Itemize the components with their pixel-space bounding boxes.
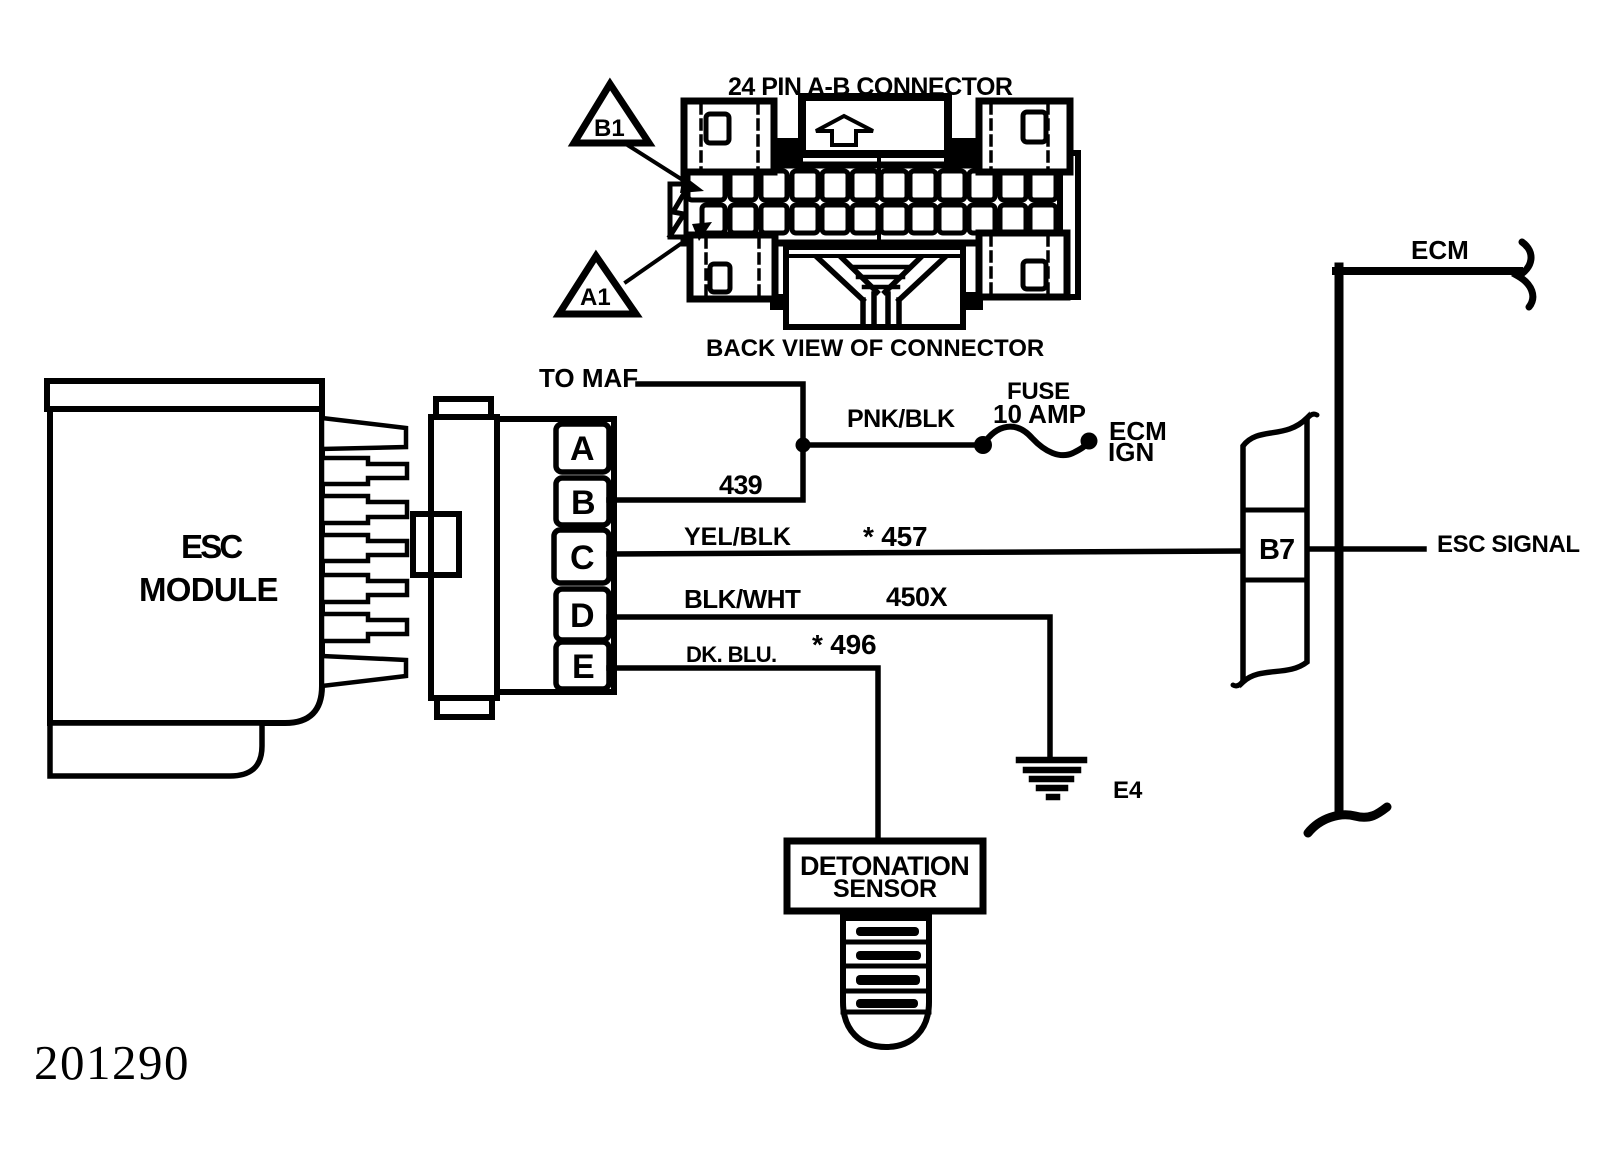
svg-text:10 AMP: 10 AMP: [993, 399, 1086, 429]
svg-text:DK. BLU.: DK. BLU.: [686, 642, 777, 667]
svg-text:YEL/BLK: YEL/BLK: [684, 523, 791, 551]
svg-text:ECM: ECM: [1411, 235, 1469, 265]
svg-text:B1: B1: [594, 115, 625, 142]
svg-text:B: B: [571, 484, 596, 522]
svg-text:ESC: ESC: [181, 528, 242, 565]
svg-text:A1: A1: [580, 284, 611, 311]
svg-text:SENSOR: SENSOR: [833, 875, 937, 903]
svg-text:450X: 450X: [886, 582, 948, 612]
svg-text:* 457: * 457: [863, 521, 927, 552]
svg-text:201290: 201290: [34, 1035, 190, 1090]
svg-text:MODULE: MODULE: [139, 571, 278, 608]
svg-text:A: A: [570, 430, 595, 468]
svg-text:24 PIN A-B CONNECTOR: 24 PIN A-B CONNECTOR: [728, 73, 1013, 101]
svg-text:BACK VIEW OF CONNECTOR: BACK VIEW OF CONNECTOR: [706, 335, 1044, 362]
svg-text:TO MAF: TO MAF: [539, 363, 638, 393]
svg-text:B7: B7: [1259, 534, 1294, 566]
svg-text:BLK/WHT: BLK/WHT: [684, 584, 801, 614]
svg-text:ESC SIGNAL: ESC SIGNAL: [1437, 531, 1580, 558]
svg-text:439: 439: [719, 470, 763, 500]
svg-text:C: C: [570, 539, 595, 577]
svg-text:E4: E4: [1113, 777, 1143, 804]
svg-text:* 496: * 496: [812, 629, 876, 660]
svg-text:PNK/BLK: PNK/BLK: [847, 405, 955, 433]
svg-text:IGN: IGN: [1108, 437, 1154, 467]
svg-text:D: D: [570, 597, 595, 635]
svg-text:E: E: [572, 648, 595, 686]
